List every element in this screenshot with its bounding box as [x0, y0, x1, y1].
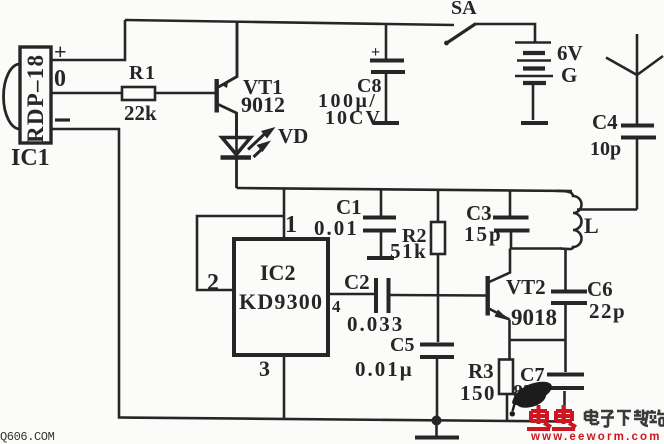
svg-text:+: + [371, 44, 380, 61]
svg-text:0: 0 [54, 66, 66, 92]
svg-text:6V: 6V [557, 41, 583, 65]
svg-text:4: 4 [332, 297, 341, 316]
svg-text:G: G [561, 63, 577, 87]
svg-text:0.01μ: 0.01μ [355, 357, 414, 381]
svg-text:RDP–18: RDP–18 [23, 55, 48, 143]
svg-text:C4: C4 [592, 110, 618, 134]
svg-text:L: L [584, 213, 599, 238]
svg-text:+: + [54, 39, 67, 64]
svg-text:51k: 51k [390, 239, 427, 263]
svg-text:0.01: 0.01 [314, 216, 359, 240]
svg-text:15p: 15p [464, 222, 503, 246]
svg-text:SA: SA [451, 0, 477, 19]
svg-text:www.eeworm.com: www.eeworm.com [530, 431, 662, 443]
svg-text:0.033: 0.033 [347, 312, 404, 336]
svg-text:C6: C6 [587, 277, 613, 301]
svg-text:10p: 10p [590, 138, 621, 160]
svg-text:IC2: IC2 [260, 260, 295, 285]
svg-text:22p: 22p [589, 299, 626, 323]
svg-text:1: 1 [285, 212, 297, 238]
svg-text:2: 2 [207, 270, 219, 296]
svg-text:10CV: 10CV [325, 107, 382, 129]
svg-text:KD9300: KD9300 [239, 289, 322, 314]
svg-text:9018: 9018 [511, 305, 557, 330]
svg-text:VD: VD [278, 124, 308, 148]
svg-text:22k: 22k [124, 101, 157, 125]
svg-text:R3: R3 [468, 359, 494, 383]
svg-text:R1: R1 [129, 62, 156, 84]
svg-text:150: 150 [460, 381, 496, 405]
svg-text:C2: C2 [344, 270, 370, 294]
svg-text:C5: C5 [390, 334, 414, 356]
svg-text:VT2: VT2 [506, 275, 546, 299]
svg-text:9012: 9012 [241, 92, 285, 117]
svg-text:Q606.COM: Q606.COM [0, 430, 55, 444]
svg-text:IC1: IC1 [11, 145, 50, 171]
svg-text:3: 3 [259, 356, 270, 381]
